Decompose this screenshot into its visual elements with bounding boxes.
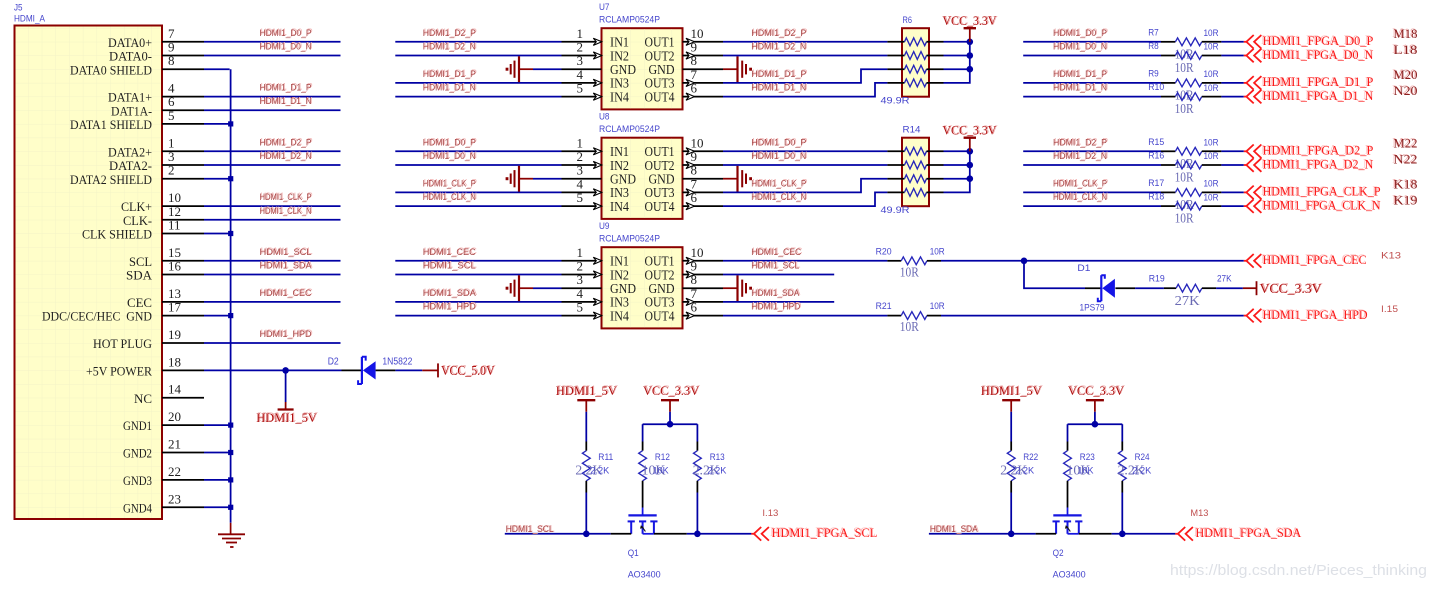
svg-text:1PS79: 1PS79 xyxy=(1080,303,1105,314)
pin 20 (GND1) xyxy=(123,409,204,433)
wire to port HDMI1_FPGA_SCL xyxy=(687,533,752,535)
pin 8 (DATA0 SHIELD) xyxy=(70,53,204,77)
wire VCC bus xyxy=(643,412,698,424)
svg-text:IN4: IN4 xyxy=(610,308,629,323)
junction xyxy=(228,505,233,510)
svg-text:GND1: GND1 xyxy=(123,418,152,433)
svg-text:R6: R6 xyxy=(903,15,913,26)
junction xyxy=(967,162,974,169)
pin 15 (SCL) xyxy=(129,245,204,269)
svg-text:HDMI1_D0_N: HDMI1_D0_N xyxy=(260,42,312,53)
svg-text:49.9R: 49.9R xyxy=(881,205,910,216)
junction xyxy=(228,423,233,428)
svg-text:8: 8 xyxy=(168,53,175,68)
svg-text:20: 20 xyxy=(168,409,181,424)
svg-text:J5: J5 xyxy=(14,3,23,14)
pin 9 (OUT2) xyxy=(645,40,724,64)
connector body xyxy=(15,26,163,520)
pin 7 (OUT3) xyxy=(645,286,724,310)
junction xyxy=(228,231,233,236)
pin 3 (GND) xyxy=(562,163,637,187)
svg-text:10K: 10K xyxy=(653,465,670,476)
svg-text:HDMI1_HPD: HDMI1_HPD xyxy=(751,302,800,313)
wire net HDMI1_CEC (U9 out) xyxy=(723,246,887,261)
ground symbol (left of IC GND pin) xyxy=(506,56,533,82)
svg-text:M22: M22 xyxy=(1394,135,1418,150)
svg-text:HDMI1_D2_P: HDMI1_D2_P xyxy=(423,28,476,39)
wire to VCC_5.0V xyxy=(395,369,422,371)
svg-text:I.13: I.13 xyxy=(762,508,778,519)
pin 6 (OUT4) xyxy=(645,190,724,214)
svg-text:6: 6 xyxy=(691,300,698,315)
transistor Q1 (AO3400 NMOS) xyxy=(628,481,661,581)
svg-text:10R: 10R xyxy=(1204,42,1219,53)
svg-text:11: 11 xyxy=(168,218,181,233)
svg-text:HDMI1_D1_N: HDMI1_D1_N xyxy=(1053,83,1107,94)
svg-text:D1: D1 xyxy=(1077,263,1090,274)
power port HDMI1_5V xyxy=(981,382,1044,412)
svg-text:27K: 27K xyxy=(1175,294,1200,309)
wire net HDMI1_D1_P (from connector pin) xyxy=(204,82,341,97)
svg-text:HDMI1_SCL: HDMI1_SCL xyxy=(751,261,799,272)
svg-text:R19: R19 xyxy=(1149,274,1165,285)
resistor R13 2.2K (pullup to 3.3V) xyxy=(693,424,727,534)
port HDMI1_FPGA_CLK_P xyxy=(1244,183,1381,199)
wire net HDMI1_D0_N (from connector pin) xyxy=(204,41,341,56)
wire shield/gnd pin to bus (row 28) xyxy=(204,424,231,426)
wire to port HDMI1_FPGA_CLK_P xyxy=(1221,191,1243,193)
svg-text:10R: 10R xyxy=(930,246,945,257)
power port VCC_5.0V xyxy=(422,362,496,378)
svg-text:HDMI1_SDA: HDMI1_SDA xyxy=(423,288,477,299)
svg-text:HDMI1_CLK_P: HDMI1_CLK_P xyxy=(1053,178,1107,189)
svg-text:K18: K18 xyxy=(1394,177,1418,192)
resistor element 4 xyxy=(887,189,943,197)
pin location M20 xyxy=(1392,66,1417,82)
resistor element 2 xyxy=(887,161,943,169)
svg-text:D2: D2 xyxy=(328,356,339,367)
svg-text:HDMI1_5V: HDMI1_5V xyxy=(556,383,618,398)
wire to port HDMI1_FPGA_SDA xyxy=(1112,533,1176,535)
port HDMI1_FPGA_D0_P xyxy=(1244,32,1373,48)
svg-text:10R: 10R xyxy=(900,320,920,335)
pin location N20 xyxy=(1392,82,1417,98)
svg-text:HDMI1_5V: HDMI1_5V xyxy=(256,410,317,425)
svg-text:HDMI1_FPGA_SDA: HDMI1_FPGA_SDA xyxy=(1196,525,1302,540)
svg-text:K19: K19 xyxy=(1394,193,1418,208)
svg-text:R8: R8 xyxy=(1148,41,1159,52)
svg-text:CLK SHIELD: CLK SHIELD xyxy=(82,227,152,242)
svg-text:I.15: I.15 xyxy=(1381,304,1398,315)
pin 5 (IN4) xyxy=(562,300,630,324)
wire net HDMI1_D0_P (to series resistor R7) xyxy=(1023,27,1161,42)
wire net HDMI1_D2_N xyxy=(723,41,887,56)
wire gnd to pin 3 xyxy=(533,178,562,180)
svg-text:HDMI1_D0_N: HDMI1_D0_N xyxy=(1053,42,1107,53)
junction xyxy=(967,66,974,73)
svg-text:HDMI1_D2_P: HDMI1_D2_P xyxy=(1053,137,1107,148)
pin 19 (HOT PLUG) xyxy=(93,327,204,351)
op-amp/ESD IC U7 RCLAMP0524P xyxy=(562,2,724,109)
pin 17 (DDC/CEC/HEC GND) xyxy=(42,300,204,324)
pin 8 (GND) xyxy=(649,272,724,296)
resistor R24 2.2K (pullup to 3.3V) xyxy=(1118,424,1152,534)
IC body xyxy=(602,247,683,328)
resistor R22 2.2K (pullup to 5V) xyxy=(1000,412,1038,534)
op-amp/ESD IC U8 RCLAMP0524P xyxy=(562,112,724,219)
pin 7 (OUT3) xyxy=(645,176,724,200)
wire net HDMI1_SCL (U9 out stub) xyxy=(723,260,834,275)
pin 10 (OUT1) xyxy=(645,245,724,269)
pin 1 (DATA2+) xyxy=(108,135,204,159)
svg-text:OUT4: OUT4 xyxy=(645,89,675,104)
wire net HDMI1_D0_N (to U8 input) xyxy=(395,150,561,165)
pin 11 (CLK SHIELD) xyxy=(82,218,204,242)
pin 5 (DATA1 SHIELD) xyxy=(70,108,204,132)
svg-text:HDMI1_SDA: HDMI1_SDA xyxy=(260,261,313,272)
pin 7 (DATA0+) xyxy=(108,26,204,50)
wire net HDMI1_D0_N (to series resistor R8) xyxy=(1023,41,1161,56)
svg-text:10R: 10R xyxy=(1204,192,1219,203)
ground symbol (right of IC GND pin) xyxy=(723,275,752,301)
IC body xyxy=(602,138,683,219)
resistor element 2 xyxy=(887,52,943,60)
svg-text:5: 5 xyxy=(577,190,584,205)
svg-text:R18: R18 xyxy=(1148,192,1164,203)
svg-text:RCLAMP0524P: RCLAMP0524P xyxy=(599,124,660,135)
port HDMI1_FPGA_D1_P xyxy=(1244,73,1373,89)
svg-text:HDMI1_D2_N: HDMI1_D2_N xyxy=(423,42,476,53)
body xyxy=(902,28,929,97)
pin 18 (+5V POWER) xyxy=(86,354,204,378)
port HDMI1_FPGA_D2_N xyxy=(1244,155,1374,171)
svg-text:R10: R10 xyxy=(1148,82,1164,93)
svg-text:HDMI1_D1_N: HDMI1_D1_N xyxy=(751,83,806,94)
pin 4 (DATA1+) xyxy=(108,81,204,105)
junction xyxy=(228,176,233,181)
resistor R10 10R xyxy=(1148,82,1221,117)
wire GND bus (shield pins to ground) xyxy=(204,69,231,523)
power port VCC_3.3V xyxy=(1068,382,1126,412)
svg-text:HDMI1_D0_N: HDMI1_D0_N xyxy=(423,151,476,162)
svg-text:M20: M20 xyxy=(1394,67,1418,82)
svg-text:HDMI1_FPGA_SCL: HDMI1_FPGA_SCL xyxy=(772,525,878,540)
wire net HDMI1_CLK_P (from connector pin) xyxy=(204,191,341,206)
junction xyxy=(1008,531,1015,538)
wire net HDMI1_SDA (U9 out stub) xyxy=(723,287,834,302)
pin 21 (GND2) xyxy=(123,437,204,461)
port HDMI1_FPGA_D1_N xyxy=(1244,87,1374,103)
junction xyxy=(967,52,974,59)
pin 4 (IN3) xyxy=(562,176,630,200)
wire net HDMI1_SDA (to U9 input) xyxy=(395,287,561,302)
svg-text:R15: R15 xyxy=(1148,137,1164,148)
wire HDMI1_FPGA_CEC xyxy=(941,260,1244,262)
junction xyxy=(228,450,233,455)
svg-text:HDMI1_HPD: HDMI1_HPD xyxy=(423,302,476,313)
svg-text:HDMI1_D2_P: HDMI1_D2_P xyxy=(260,137,312,148)
svg-text:HDMI1_CLK_P: HDMI1_CLK_P xyxy=(423,178,476,189)
svg-text:10R: 10R xyxy=(1204,69,1219,80)
wire to port HDMI1_FPGA_CLK_N xyxy=(1221,205,1243,207)
svg-text:R20: R20 xyxy=(876,246,892,257)
svg-text:DDC/CEC/HEC GND: DDC/CEC/HEC GND xyxy=(42,309,152,324)
wire net HDMI1_CLK_N (to U8 input) xyxy=(395,191,561,206)
svg-text:17: 17 xyxy=(168,300,182,315)
body xyxy=(902,138,929,207)
svg-text:L18: L18 xyxy=(1394,42,1418,57)
op-amp/ESD IC U9 RCLAMP0524P xyxy=(562,221,724,328)
pin location K18 xyxy=(1392,176,1417,192)
svg-text:HDMI1_D0_P: HDMI1_D0_P xyxy=(423,137,476,148)
power port VCC_3.3V xyxy=(942,12,998,41)
svg-text:HDMI1_CEC: HDMI1_CEC xyxy=(423,247,476,258)
resistor R12 10K (gate pullup) xyxy=(639,424,670,481)
pin 14 (NC) xyxy=(134,382,204,406)
svg-text:HDMI1_CLK_P: HDMI1_CLK_P xyxy=(751,178,806,189)
svg-text:HDMI1_SCL: HDMI1_SCL xyxy=(260,247,312,258)
pin 3 (GND) xyxy=(562,272,637,296)
wire net HDMI1_D0_N xyxy=(723,150,887,165)
port HDMI1_FPGA_CEC xyxy=(1244,251,1367,267)
svg-text:23: 23 xyxy=(168,491,181,506)
svg-text:10R: 10R xyxy=(930,301,945,312)
wire +5V POWER net xyxy=(204,369,342,371)
wire net HDMI1_CEC (from connector pin) xyxy=(204,287,341,302)
resistor R23 10K (gate pullup) xyxy=(1064,424,1095,481)
pin 12 (CLK-) xyxy=(123,204,204,228)
junction xyxy=(967,148,974,155)
pin 5 (IN4) xyxy=(562,81,630,105)
wire net HDMI1_D0_P (IC out to resistor pack) xyxy=(723,136,887,151)
wire net HDMI1_D2_N (to U7 input) xyxy=(395,41,561,56)
svg-text:Q2: Q2 xyxy=(1053,548,1064,559)
pin 2 (IN2) xyxy=(562,259,630,283)
wire net HDMI1_CLK_P (to U8 input) xyxy=(395,178,561,193)
svg-text:19: 19 xyxy=(168,327,181,342)
resistor element 1 xyxy=(887,38,943,46)
wire shield/gnd pin to bus (row 34) xyxy=(204,506,231,508)
pin 6 (OUT4) xyxy=(645,300,724,324)
resistor R17 10R xyxy=(1148,178,1221,213)
svg-text:2.2K: 2.2K xyxy=(590,465,610,476)
wire net HDMI1_CLK_P (to series resistor R17) xyxy=(1023,178,1161,193)
resistor R18 10R xyxy=(1148,192,1221,227)
pin 10 (CLK+) xyxy=(121,190,204,214)
power port VCC_3.3V xyxy=(942,122,998,151)
wire shield/gnd pin to bus (row 14) xyxy=(204,233,231,235)
wire transistor left stub xyxy=(611,533,632,535)
resistor R8 10R xyxy=(1148,41,1221,76)
svg-text:10R: 10R xyxy=(900,265,920,280)
pin 9 (OUT2) xyxy=(645,259,724,283)
wire net HDMI1_D1_N (to U7 input) xyxy=(395,82,561,97)
wire R6 outputs to VCC_3.3V column xyxy=(944,39,974,83)
wire gnd to pin 3 xyxy=(533,287,562,289)
transistor Q2 (AO3400 NMOS) xyxy=(1053,481,1086,581)
svg-text:HDMI1_CEC: HDMI1_CEC xyxy=(751,247,801,258)
svg-text:HDMI1_SDA: HDMI1_SDA xyxy=(930,524,979,535)
svg-text:HDMI1_D2_N: HDMI1_D2_N xyxy=(1053,151,1107,162)
wire R19 to VCC_3.3V xyxy=(1216,287,1243,289)
wire net HDMI1_D2_N (from connector pin) xyxy=(204,150,341,165)
resistor element 3 xyxy=(887,65,943,73)
svg-text:HDMI1_D2_P: HDMI1_D2_P xyxy=(751,28,806,39)
svg-text:HDMI1_SCL: HDMI1_SCL xyxy=(506,524,554,535)
pin 1 (IN1) xyxy=(562,135,630,159)
svg-text:5: 5 xyxy=(168,108,175,123)
svg-text:HDMI1_D2_N: HDMI1_D2_N xyxy=(260,151,312,162)
svg-text:5: 5 xyxy=(577,81,584,96)
pin 16 (SDA) xyxy=(126,259,204,283)
svg-text:R22: R22 xyxy=(1023,452,1038,463)
svg-text:10R: 10R xyxy=(1204,179,1219,190)
pin 2 (IN2) xyxy=(562,149,630,173)
wire to port HDMI1_FPGA_D0_P xyxy=(1221,41,1243,43)
svg-text:SDA: SDA xyxy=(126,268,153,283)
resistor R20 10R xyxy=(876,246,945,280)
svg-text:HDMI1_D1_P: HDMI1_D1_P xyxy=(423,69,476,80)
pin 22 (GND3) xyxy=(123,464,204,488)
resistor R9 10R xyxy=(1148,68,1221,103)
pin 3 (GND) xyxy=(562,53,637,77)
wire to port HDMI1_FPGA_D2_P xyxy=(1221,150,1243,152)
svg-text:+5V POWER: +5V POWER xyxy=(86,364,152,379)
svg-text:U8: U8 xyxy=(599,112,610,123)
svg-text:R7: R7 xyxy=(1148,27,1159,38)
resistor R7 10R xyxy=(1148,27,1221,62)
wire net HDMI1_D2_P (to series resistor R15) xyxy=(1023,136,1161,151)
port HDMI1_FPGA_SDA xyxy=(1175,524,1302,540)
svg-text:R17: R17 xyxy=(1148,178,1164,189)
pin 2 (IN2) xyxy=(562,40,630,64)
svg-text:U9: U9 xyxy=(599,221,610,232)
diode D2 (1N5822 schottky) xyxy=(328,356,413,384)
svg-text:GND2: GND2 xyxy=(123,446,152,461)
wire net HDMI1_D1_P (to series resistor R9) xyxy=(1023,68,1161,83)
pin 8 (GND) xyxy=(649,163,724,187)
junction xyxy=(282,367,289,374)
svg-text:OUT4: OUT4 xyxy=(645,308,675,323)
svg-text:10R: 10R xyxy=(1175,102,1195,117)
svg-text:HDMI1_D1_P: HDMI1_D1_P xyxy=(260,83,312,94)
junction xyxy=(1119,531,1126,538)
wire net HDMI1_CLK_N (jog up) xyxy=(723,191,887,206)
svg-text:AO3400: AO3400 xyxy=(1053,570,1086,581)
wire net HDMI1_SDA (bottom) xyxy=(929,523,1036,535)
svg-text:HOT PLUG: HOT PLUG xyxy=(93,336,152,351)
svg-text:HDMI1_D0_P: HDMI1_D0_P xyxy=(751,137,806,148)
svg-text:HDMI1_D1_P: HDMI1_D1_P xyxy=(751,69,806,80)
pin 1 (IN1) xyxy=(562,26,630,50)
wire net HDMI1_CLK_P (jog up) xyxy=(723,178,887,193)
svg-text:IN4: IN4 xyxy=(610,89,629,104)
junction xyxy=(667,421,674,428)
svg-text:10R: 10R xyxy=(1175,212,1195,227)
wire VCC bus xyxy=(1068,412,1123,424)
svg-text:HDMI1_FPGA_CLK_N: HDMI1_FPGA_CLK_N xyxy=(1263,197,1382,212)
svg-text:R23: R23 xyxy=(1080,452,1095,463)
svg-text:NC: NC xyxy=(134,391,152,406)
svg-text:HDMI1_D1_N: HDMI1_D1_N xyxy=(423,83,476,94)
wire shield/gnd pin to bus (row 32) xyxy=(204,479,231,481)
svg-text:16: 16 xyxy=(168,259,182,274)
resistor R16 10R xyxy=(1148,151,1221,186)
wire net HDMI1_D1_N (jog up) xyxy=(723,82,887,97)
port HDMI1_FPGA_SCL xyxy=(751,524,877,540)
wire R14 outputs to VCC_3.3V column xyxy=(944,148,974,192)
wire net HDMI1_D2_P (IC out to resistor pack) xyxy=(723,27,887,42)
svg-text:22: 22 xyxy=(168,464,181,479)
junction xyxy=(228,121,233,126)
wire shield/gnd pin to bus (row 6) xyxy=(204,123,231,125)
wire shield/gnd pin to bus (row 10) xyxy=(204,178,231,180)
resistor R11 2.2K (pullup to 5V) xyxy=(575,412,613,534)
port HDMI1_FPGA_HPD xyxy=(1244,306,1368,322)
wire net HDMI1_CEC (to U9 input) xyxy=(395,246,561,261)
junction xyxy=(694,531,701,538)
svg-text:RCLAMP0524P: RCLAMP0524P xyxy=(599,15,660,26)
pin 4 (IN3) xyxy=(562,67,630,91)
ground symbol (left of IC GND pin) xyxy=(506,275,533,301)
pin 3 (DATA2-) xyxy=(109,149,204,173)
svg-text:HDMI1_CLK_N: HDMI1_CLK_N xyxy=(751,192,806,203)
wire net HDMI1_D1_N (from connector pin) xyxy=(204,95,341,110)
wire net HDMI1_SCL (bottom) xyxy=(505,523,611,535)
ground symbol (right of IC GND pin) xyxy=(723,56,752,82)
svg-text:5: 5 xyxy=(577,300,584,315)
IC body xyxy=(602,28,683,109)
svg-text:HDMI1_CLK_N: HDMI1_CLK_N xyxy=(423,192,476,203)
pin 6 (OUT4) xyxy=(645,81,724,105)
power port VCC_3.3V xyxy=(643,382,701,412)
svg-text:VCC_3.3V: VCC_3.3V xyxy=(643,383,700,398)
svg-text:HDMI1_CEC: HDMI1_CEC xyxy=(260,288,312,299)
svg-text:M13: M13 xyxy=(1190,508,1208,519)
svg-text:HDMI1_FPGA_D0_N: HDMI1_FPGA_D0_N xyxy=(1263,47,1374,62)
pin location L18 xyxy=(1392,41,1417,57)
resistor pack R6 (49.9R) xyxy=(881,15,944,107)
svg-text:GND3: GND3 xyxy=(123,473,152,488)
diode D1 (1PS79 schottky) xyxy=(1077,263,1135,314)
wire transistor left stub xyxy=(1036,533,1057,535)
pin 1 (IN1) xyxy=(562,245,630,269)
svg-text:IN4: IN4 xyxy=(610,199,629,214)
wire net HDMI1_D1_N (to series resistor R10) xyxy=(1023,82,1161,97)
resistor element 4 xyxy=(887,79,943,87)
pin location M18 xyxy=(1392,25,1417,41)
svg-text:10R: 10R xyxy=(1204,28,1219,39)
wire transistor right stub xyxy=(654,533,687,535)
svg-text:VCC_3.3V: VCC_3.3V xyxy=(942,13,997,28)
svg-text:HDMI1_SCL: HDMI1_SCL xyxy=(423,261,476,272)
svg-text:Q1: Q1 xyxy=(628,548,639,559)
wire net HDMI1_D2_P (from connector pin) xyxy=(204,136,341,151)
svg-text:HDMI1_CLK_N: HDMI1_CLK_N xyxy=(1053,192,1107,203)
pin location M22 xyxy=(1392,134,1417,150)
port HDMI1_FPGA_D2_P xyxy=(1244,142,1373,158)
svg-text:K13: K13 xyxy=(1381,251,1401,262)
resistor pack R14 (49.9R) xyxy=(881,125,944,217)
pin location K19 xyxy=(1392,192,1417,208)
wire net HDMI1_D1_P (jog up) xyxy=(723,68,887,83)
svg-text:HDMI1_FPGA_D1_N: HDMI1_FPGA_D1_N xyxy=(1263,88,1374,103)
ground symbol (left of IC GND pin) xyxy=(506,166,533,192)
svg-text:https://blog.csdn.net/Pieces_t: https://blog.csdn.net/Pieces_thinking xyxy=(1170,562,1427,579)
svg-text:HDMI_A: HDMI_A xyxy=(14,14,46,25)
wire shield/gnd pin to bus (row 20) xyxy=(204,315,231,317)
svg-text:HDMI1_D0_P: HDMI1_D0_P xyxy=(260,28,312,39)
